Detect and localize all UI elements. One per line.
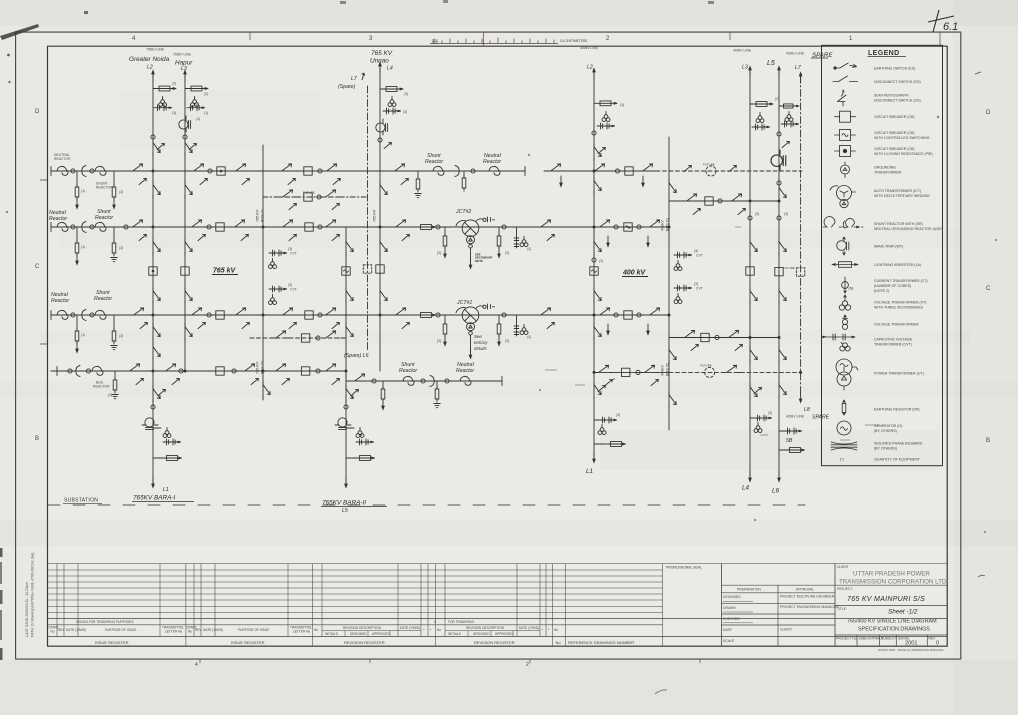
circuit breaker bus I bay2 <box>304 167 312 175</box>
svg-text:DISCONNECT SWITCH (DS): DISCONNECT SWITCH (DS) <box>874 99 921 103</box>
svg-text:AUTO TRANSFORMER (ICT): AUTO TRANSFORMER (ICT) <box>874 189 921 193</box>
lightning arrester bus II <box>417 225 436 230</box>
svg-text:(3): (3) <box>505 251 509 255</box>
CT resistor right of JCT#1 <box>498 315 500 322</box>
svg-text:DRAWN: DRAWN <box>723 606 736 610</box>
svg-text:L2: L2 <box>587 65 593 71</box>
svg-text:Reactor: Reactor <box>456 368 474 374</box>
bus 765kV bus III <box>51 314 669 316</box>
svg-text:TRANSFORMER: TRANSFORMER <box>874 171 902 175</box>
svg-text:STRUK-VER : PAGE A) HORIZONTAL: STRUK-VER : PAGE A) HORIZONTAL ENGLISH <box>878 648 943 652</box>
svg-text:(Spare): (Spare) <box>338 84 356 90</box>
svg-text:L8: L8 <box>804 407 810 413</box>
reactor resistor drop <box>463 171 465 176</box>
svg-text:(NUMBER OF CORES): (NUMBER OF CORES) <box>874 284 911 288</box>
BARA-II CT <box>344 405 348 409</box>
svg-text:(3): (3) <box>119 190 123 194</box>
bus section CVT stub a <box>269 250 287 256</box>
svg-text:(3): (3) <box>288 283 292 287</box>
400kV L2 top lightning arrester <box>594 102 617 104</box>
400kV L2 bottom lightning arrester <box>607 442 626 447</box>
svg-text:SPARE: SPARE <box>812 415 830 421</box>
BARA-II wave trap <box>335 418 351 430</box>
legend voltage transformer 3 sec <box>839 295 850 310</box>
node <box>71 169 75 173</box>
circuit breaker bus III right <box>624 311 632 319</box>
feeder L3 top lightning arrester <box>185 88 208 90</box>
svg-text:400kV LINE: 400kV LINE <box>580 46 599 50</box>
earthing resistor bus I b <box>113 171 115 185</box>
legend item texts <box>840 66 943 461</box>
future bay row2 elements <box>273 331 290 338</box>
svg-text:L4: L4 <box>742 485 750 492</box>
substation boundary dashed <box>48 504 805 506</box>
svg-text:CLIENT: CLIENT <box>837 565 849 569</box>
400kV L5 CT <box>777 181 781 185</box>
svg-text:CAPACITIVE VOLTAGE: CAPACITIVE VOLTAGE <box>874 338 913 342</box>
feeder L2 switch <box>153 140 160 157</box>
svg-text:EARTHING RESISTOR (ER): EARTHING RESISTOR (ER) <box>874 407 920 411</box>
svg-text:JCT#1: JCT#1 <box>456 300 472 306</box>
legend disconnect switch <box>833 76 858 82</box>
svg-text:DESIGNED: DESIGNED <box>473 632 490 636</box>
arrow down BARA-II <box>344 477 348 489</box>
CT resistor left of ICT <box>444 227 446 234</box>
svg-text:(1): (1) <box>81 245 85 249</box>
svg-text:DATE: DATE <box>723 628 733 632</box>
legend circuit breaker controlled switching <box>835 130 856 141</box>
svg-text:BUS #2: BUS #2 <box>261 361 265 374</box>
svg-text:765 KV MAINPURI S/S: 765 KV MAINPURI S/S <box>847 596 925 603</box>
svg-text:ISOLATED PHASE BUSBARS: ISOLATED PHASE BUSBARS <box>874 442 923 446</box>
svg-text:(1): (1) <box>204 111 208 115</box>
preparation / approval table <box>722 585 836 646</box>
legend lightning arrester <box>832 262 858 268</box>
wire tie row solid <box>594 371 669 373</box>
earthing resistor bus I a <box>76 171 78 185</box>
svg-text:INITIALS: INITIALS <box>448 632 461 636</box>
arrow up 400kV L5 <box>777 65 781 77</box>
future circuit breaker spare L7 <box>796 268 804 276</box>
title block <box>835 585 947 646</box>
svg-text:No: No <box>556 640 562 645</box>
400kV L5 bottom lightning arrester <box>786 448 805 453</box>
bus 765kV bus IV <box>51 370 346 372</box>
svg-text:Reactor: Reactor <box>425 159 443 165</box>
svg-text:See: See <box>474 334 482 339</box>
link row bay <box>684 194 701 201</box>
svg-text:(2): (2) <box>775 97 779 101</box>
svg-text:5B: 5B <box>786 438 793 444</box>
svg-text:765 KV: 765 KV <box>373 209 377 222</box>
circuit breaker 400kV L3 <box>746 267 754 275</box>
BARA-I CVT <box>163 427 171 437</box>
svg-text:(3): (3) <box>505 339 509 343</box>
legend current transformer <box>842 277 854 293</box>
svg-text:EARTHING SWITCH (ES): EARTHING SWITCH (ES) <box>874 66 915 70</box>
svg-text:LAST SAVE 2009/04/11 - 12:23pm: LAST SAVE 2009/04/11 - 12:23pm <box>25 582 29 637</box>
svg-text:Reactor: Reactor <box>399 368 417 374</box>
svg-text:NEUTRAL GROUNDING REACTOR (NGR: NEUTRAL GROUNDING REACTOR (NGR) <box>874 227 943 231</box>
svg-text:2001: 2001 <box>905 641 917 647</box>
svg-text:(1): (1) <box>81 189 85 193</box>
arrow down BARA-I <box>151 477 155 489</box>
svg-text:DATE (Y/M/D): DATE (Y/M/D) <box>519 626 539 630</box>
svg-text:(3): (3) <box>172 111 176 115</box>
circuit breaker tie row <box>622 368 630 376</box>
svg-text:SCALE: SCALE <box>723 639 735 643</box>
svg-text:No: No <box>51 630 55 634</box>
bus section lower switch <box>263 382 270 399</box>
svg-text:PROJECT No: PROJECT No <box>836 637 857 641</box>
svg-text:Reactor: Reactor <box>483 159 501 165</box>
svg-text:CLIENT: CLIENT <box>780 628 792 632</box>
svg-text:WITH THREE SECONDARIES: WITH THREE SECONDARIES <box>874 306 923 310</box>
circuit breaker future row2 <box>301 334 309 342</box>
svg-text:L1: L1 <box>163 487 169 493</box>
shunt reactor branch elements <box>352 374 369 381</box>
circuit breaker link row <box>705 197 713 205</box>
feeder L2 switches between buses <box>153 182 160 199</box>
branch end tick <box>501 377 503 386</box>
svg-text:UTTAR PRADESH POWER: UTTAR PRADESH POWER <box>853 571 930 578</box>
legend generator <box>837 421 851 435</box>
svg-text:B: B <box>986 438 990 444</box>
arrow down 400kV L1 <box>592 452 596 464</box>
legend semi pantograph disconnect switch <box>838 90 847 106</box>
handwritten sheet number 6.1 top right <box>928 10 958 33</box>
svg-text:765 KV: 765 KV <box>256 209 260 222</box>
feeder L3 CT <box>183 135 187 139</box>
svg-text:(3): (3) <box>437 339 441 343</box>
bracket right <box>455 166 459 177</box>
svg-text:Reactor: Reactor <box>95 215 113 221</box>
shunt reactor bus I right <box>433 166 444 175</box>
svg-text:400kV: 400kV <box>661 220 665 231</box>
svg-text:B: B <box>35 436 39 442</box>
svg-text:(3): (3) <box>437 251 441 255</box>
svg-text:No: No <box>437 628 441 632</box>
legend isolated phase busbars <box>831 442 857 450</box>
svg-text:0: 0 <box>434 620 436 624</box>
bus reactor <box>92 366 103 375</box>
feeder L2 earthing switch row <box>154 105 172 111</box>
svg-text:L5: L5 <box>342 508 348 514</box>
CVT cluster bus III <box>514 315 519 336</box>
handwritten and printed labels <box>49 46 833 514</box>
feeder L4 Unnao vertical <box>379 62 381 371</box>
svg-text:FOR TENDERING: FOR TENDERING <box>448 620 475 624</box>
circuit breaker bus II bay2 <box>305 223 313 231</box>
svg-text:VOLTAGE TRANSFORMER (VT): VOLTAGE TRANSFORMER (VT) <box>874 301 926 305</box>
svg-text:(1): (1) <box>81 333 85 337</box>
svg-text:REACTOR: REACTOR <box>54 157 71 161</box>
svg-text:(2): (2) <box>204 92 208 96</box>
svg-text:REV: REV <box>929 637 937 641</box>
svg-text:TITLE: TITLE <box>837 607 847 611</box>
earthing resistor bus I right <box>417 171 419 177</box>
Unnao wave trap <box>376 119 388 135</box>
feeder L3 switch <box>185 140 192 157</box>
svg-text:PURPOSE OF ISSUE: PURPOSE OF ISSUE <box>238 628 269 632</box>
circuit breaker bus IV bay1 <box>216 367 224 375</box>
LEGEND box <box>822 45 943 465</box>
svg-text:765 kV: 765 kV <box>213 268 237 275</box>
feeder BARA-II vertical <box>345 227 347 483</box>
svg-text:REFERENCE DRAWINGS NUMBER: REFERENCE DRAWINGS NUMBER <box>568 640 634 645</box>
circuit breaker bus IV bay2 <box>301 367 309 375</box>
svg-text:6.1: 6.1 <box>943 21 958 33</box>
svg-text:0: 0 <box>936 641 939 647</box>
svg-text:(3): (3) <box>403 110 407 114</box>
bus 765kV main bus I <box>51 170 525 172</box>
svg-text:400 kV: 400 kV <box>622 270 647 277</box>
svg-text:PATH: G:\drawing\sld\765kv-mb0: PATH: G:\drawing\sld\765kv-mb01-4700-200… <box>31 553 35 637</box>
svg-text:REVISION REGISTER: REVISION REGISTER <box>344 640 385 645</box>
CVT cluster bus II <box>514 227 519 248</box>
wire 400kV bus upper right <box>544 170 656 172</box>
circuit breaker upper right <box>625 167 633 175</box>
svg-text:BUS #1: BUS #1 <box>666 218 670 231</box>
register section verticals <box>57 564 312 647</box>
bus section CVT stub b <box>269 286 287 292</box>
circuit breaker BARA-II tie <box>342 267 350 275</box>
legend symbols column <box>823 63 863 450</box>
BARA-I below-bus earthing switch <box>153 386 160 403</box>
neutral reactor bus I right <box>489 166 500 175</box>
svg-text:No: No <box>554 628 558 632</box>
svg-text:TRANSMISSION CORPORATION LTD: TRANSMISSION CORPORATION LTD <box>839 579 947 586</box>
svg-text:SUBCONTRACT: SUBCONTRACT <box>859 637 884 641</box>
svg-text:765 KV: 765 KV <box>371 50 393 57</box>
circuit breaker feeder L3 <box>181 267 189 275</box>
feeder L2 top lightning arrester <box>153 88 176 90</box>
svg-text:APPROVED: APPROVED <box>495 632 513 636</box>
svg-text:PROFESSIONAL SEAL: PROFESSIONAL SEAL <box>666 566 702 570</box>
svg-text:FUTURE: FUTURE <box>703 163 715 167</box>
svg-text:PROJECT DISCIPLINE ENGINEER: PROJECT DISCIPLINE ENGINEER <box>780 594 835 598</box>
svg-text:PREPARATION: PREPARATION <box>737 588 761 592</box>
svg-text:10 CENTIMETERS: 10 CENTIMETERS <box>560 39 587 43</box>
legend voltage transformer <box>842 315 847 329</box>
svg-text:400kV LINE: 400kV LINE <box>786 52 805 56</box>
svg-text:CIRCUIT BREAKER (CB): CIRCUIT BREAKER (CB) <box>874 115 915 119</box>
circuit breaker feeder L2 <box>149 267 157 275</box>
svg-text:C: C <box>35 264 40 270</box>
circuit breaker bus III bay2 <box>305 311 313 319</box>
arrow down spare L8 <box>799 392 803 404</box>
svg-text:L6: L6 <box>772 488 780 495</box>
svg-text:FUTURE: FUTURE <box>783 266 795 270</box>
svg-text:(3): (3) <box>694 282 698 286</box>
bus 765kV main bus II <box>51 226 669 228</box>
Unnao top lightning arrester <box>380 88 403 90</box>
400kV L2 CT <box>592 131 596 135</box>
svg-text:D: D <box>986 110 991 116</box>
BARA-I earthing switch row <box>163 439 181 445</box>
lower link row bay <box>682 330 699 337</box>
svg-text:ISSUE REGISTER: ISSUE REGISTER <box>231 640 265 645</box>
svg-text:(3): (3) <box>527 247 531 251</box>
svg-text:(3): (3) <box>616 413 620 417</box>
lightning arrester bus III <box>417 313 436 318</box>
svg-text:FUTURE: FUTURE <box>700 364 712 368</box>
svg-text:(BY OTHERS): (BY OTHERS) <box>874 447 897 451</box>
svg-text:tertiary: tertiary <box>474 340 488 345</box>
svg-text:CVT: CVT <box>696 287 703 291</box>
svg-text:REVISION REGISTER: REVISION REGISTER <box>474 640 515 645</box>
svg-text:BUS #2: BUS #2 <box>666 363 670 376</box>
svg-text:PURPOSE OF ISSUE: PURPOSE OF ISSUE <box>105 628 136 632</box>
arrow up 400kV L2 <box>592 67 596 79</box>
svg-text:Greater Noida: Greater Noida <box>129 56 170 63</box>
bottom register tables <box>48 564 948 647</box>
arrow down 400kV L6 <box>777 471 781 483</box>
svg-text:L3: L3 <box>181 66 187 72</box>
circuit breaker Unnao feeder <box>376 265 384 273</box>
legend earthing resistor <box>842 400 846 415</box>
svg-text:400kV: 400kV <box>661 365 665 376</box>
400kV L5 CT upper <box>777 132 781 136</box>
svg-text:SUBSTATION: SUBSTATION <box>64 498 98 504</box>
bus III left end tick <box>50 311 52 320</box>
400kV L5 top CVT <box>785 111 793 121</box>
svg-text:CIRCUIT BREAKER (CB): CIRCUIT BREAKER (CB) <box>874 131 915 135</box>
feeder L2 400kV vertical <box>593 73 595 458</box>
svg-text:REACTOR: REACTOR <box>93 385 110 389</box>
svg-text:REVISION DESCRIPTION: REVISION DESCRIPTION <box>343 626 382 630</box>
Unnao CT <box>378 138 382 142</box>
400kV L3 feeder devices <box>748 216 752 220</box>
svg-text:(3): (3) <box>119 334 123 338</box>
auto transformer JCT#1 <box>456 307 479 335</box>
circuit breaker bus III bay1 <box>216 311 224 319</box>
400kV L5 earthing switch row <box>781 121 799 127</box>
bus upper right bay <box>548 164 565 171</box>
svg-text:APPROVED: APPROVED <box>372 632 390 636</box>
svg-text:(3): (3) <box>599 259 603 263</box>
svg-text:L3: L3 <box>742 65 748 71</box>
svg-text:400kV LINE: 400kV LINE <box>786 415 805 419</box>
future bay row1 elements <box>280 190 297 197</box>
400kV bus section stub b <box>674 285 692 291</box>
wire tie row dashed future <box>669 371 801 373</box>
svg-text:400kV LINE: 400kV LINE <box>733 49 752 53</box>
svg-text:CVT: CVT <box>696 254 703 258</box>
feeder L3 wave trap <box>179 116 191 132</box>
svg-text:(3): (3) <box>784 212 788 216</box>
svg-text:SUBJECT: SUBJECT <box>881 637 896 641</box>
400kV L3 top CVT <box>756 112 764 122</box>
svg-text:SEMI PENTOGRAPH: SEMI PENTOGRAPH <box>874 94 909 98</box>
400kV L2 feeder switches <box>594 178 601 195</box>
400kV L2 bottom CVT cluster <box>599 417 617 423</box>
arrow up spare L7 <box>799 71 803 83</box>
svg-text:DESIGNED: DESIGNED <box>350 632 367 636</box>
feeder L2 Greater Noida vertical <box>152 75 154 483</box>
svg-text:Reactor: Reactor <box>51 298 69 304</box>
svg-text:(3): (3) <box>119 246 123 250</box>
400kV L5 wave trap <box>771 150 786 170</box>
circuit breaker bus II right controlled <box>624 223 632 231</box>
svg-text:No: No <box>188 630 192 634</box>
earthing resistor bus II a <box>76 227 78 241</box>
wire 400kV lower link row <box>669 337 779 339</box>
svg-text:ISSUE REGISTER: ISSUE REGISTER <box>95 640 129 645</box>
svg-text:(Spare) L6: (Spare) L6 <box>344 353 369 359</box>
svg-text:+: + <box>542 628 544 632</box>
400kV L5 feeder devices <box>777 216 781 220</box>
svg-text:GROUNDING: GROUNDING <box>874 166 896 170</box>
svg-text:C: C <box>986 286 991 292</box>
legend auto transformer ICT <box>830 186 856 208</box>
earthing resistor bus II b <box>113 227 115 241</box>
svg-text:CVT: CVT <box>290 288 297 292</box>
Unnao switch <box>384 142 391 148</box>
svg-text:DESIGNED: DESIGNED <box>723 595 741 599</box>
svg-text:765kV LINE: 765kV LINE <box>146 48 165 52</box>
svg-text:L4: L4 <box>387 66 393 72</box>
bus IV left end tick <box>56 367 58 376</box>
arrow up Unnao <box>378 61 382 73</box>
svg-text:REV: REV <box>58 628 65 632</box>
neutral reactor bus I <box>57 166 68 175</box>
svg-text:CIRCUIT BREAKER (CB): CIRCUIT BREAKER (CB) <box>874 147 915 151</box>
circuit breaker bus II bay1 <box>216 223 224 231</box>
bus I left end tick <box>50 167 52 176</box>
svg-text:VOLTAGE TRANSFORMER: VOLTAGE TRANSFORMER <box>874 322 919 326</box>
svg-text:(BY OTHERS): (BY OTHERS) <box>874 429 897 433</box>
feeder L5 400kV vertical <box>778 71 780 477</box>
top margin ruler and zone numbers <box>200 32 940 663</box>
400kV L5 bottom CVT cluster <box>784 428 802 434</box>
svg-text:details: details <box>474 346 487 351</box>
svg-text:SHUNT REACTOR WITH (SR): SHUNT REACTOR WITH (SR) <box>874 222 923 226</box>
wire 400kV link row <box>669 200 779 202</box>
bracket <box>82 166 86 177</box>
svg-text:+: + <box>430 628 432 632</box>
400kV L3 earthing switch row <box>752 124 770 130</box>
svg-text:(3): (3) <box>108 393 112 397</box>
svg-text:WITH CONTROLLED SWITCHING: WITH CONTROLLED SWITCHING <box>874 136 930 140</box>
legend wave trap <box>837 237 849 255</box>
400kV L5 top lightning arrester <box>779 105 799 107</box>
svg-text:(3): (3) <box>527 335 531 339</box>
svg-text:CVT: CVT <box>290 252 297 256</box>
svg-text:2: 2 <box>526 662 529 668</box>
auto transformer JCT#2 <box>456 220 479 248</box>
bus reactor resistor <box>114 371 116 378</box>
BARA-II below-bus earthing switch <box>346 386 353 403</box>
svg-text:GENERATOR (G): GENERATOR (G) <box>874 424 902 428</box>
neutral reactor bus II <box>57 222 68 231</box>
svg-text:DATE (Y/M/D): DATE (Y/M/D) <box>66 628 86 632</box>
svg-text:PROJECT: PROJECT <box>837 587 852 591</box>
legend shunt reactor NGR <box>823 217 863 228</box>
svg-text:ISSUED FOR TENDERING PURPOSES: ISSUED FOR TENDERING PURPOSES <box>76 620 134 624</box>
wire shunt reactor branch <box>346 371 502 381</box>
svg-text:Unnao: Unnao <box>370 58 389 65</box>
400kV L3 bottom CVT cluster <box>754 415 772 421</box>
svg-text:(3): (3) <box>694 249 698 253</box>
svg-text:REACTOR: REACTOR <box>96 186 113 190</box>
svg-text:DISCONNECT SWITCH (DS): DISCONNECT SWITCH (DS) <box>874 80 921 84</box>
future circuit breaker dashed circle tie <box>705 367 715 377</box>
svg-text:WAVE TRAP (WT): WAVE TRAP (WT) <box>874 244 903 248</box>
svg-text:REVISION DESCRIPTION: REVISION DESCRIPTION <box>466 626 505 630</box>
svg-text:CURRENT TRANSFORMER (CT): CURRENT TRANSFORMER (CT) <box>874 279 928 283</box>
legend earthing switch <box>834 63 857 69</box>
